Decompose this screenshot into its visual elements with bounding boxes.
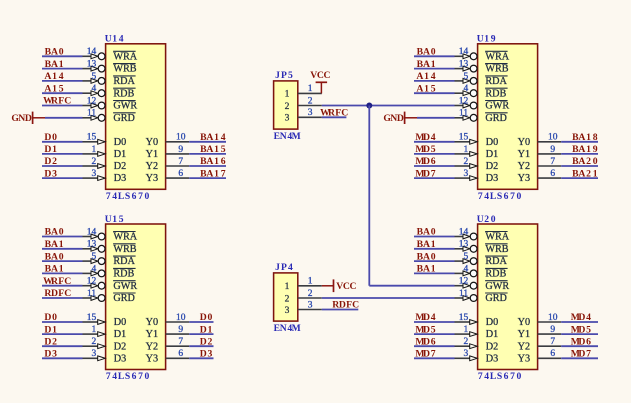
svg-text:GRD: GRD (485, 113, 507, 124)
svg-text:Y3: Y3 (518, 353, 530, 364)
wire net D3 to U15.D3 (42, 357, 83, 359)
svg-text:7: 7 (178, 337, 183, 347)
wire net D1 to U15.D1 (42, 333, 83, 335)
svg-text:JP5: JP5 (275, 70, 293, 81)
svg-text:Y0: Y0 (518, 137, 530, 148)
wire net MD5 to U19.D1 (414, 153, 455, 155)
U14 pin 5 (RDA) input stub with bubble (83, 72, 106, 85)
U19 pin 11 (GRD) input stub with bubble (455, 109, 478, 122)
wire net MD4 to U19.D0 (414, 141, 455, 143)
wire net BA20 from U19.Y2 (561, 165, 598, 167)
svg-text:D2: D2 (44, 336, 57, 347)
svg-text:15: 15 (459, 313, 469, 323)
JP5 pin 1 stub (298, 84, 322, 94)
wire net BA14 from U14.Y0 (189, 141, 226, 143)
svg-text:RDB: RDB (485, 269, 506, 280)
svg-text:BA1: BA1 (417, 264, 436, 275)
wire net BA1 to U15.RDB (42, 272, 83, 274)
U15 pin 9 (Y1) output stub (166, 325, 190, 335)
svg-text:11: 11 (87, 109, 96, 119)
wire JP4.2 to U20.GRD (322, 297, 455, 299)
net label BA17 (200, 168, 226, 179)
IC U14 body (106, 44, 166, 190)
U20 pin 12 (GWR) input stub with bubble (455, 277, 478, 290)
svg-text:GWR: GWR (485, 281, 509, 292)
wire net MD6 from U20.Y2 (561, 345, 598, 347)
svg-text:2: 2 (285, 102, 290, 112)
svg-text:1: 1 (308, 277, 313, 287)
net label BA20 (572, 156, 598, 167)
svg-text:MD7: MD7 (571, 349, 591, 360)
wire net BA17 from U14.Y3 (189, 177, 226, 179)
JP4 pin 2 stub (298, 289, 322, 299)
svg-text:2: 2 (463, 337, 468, 347)
wire net D3 from U15.Y3 (189, 357, 213, 359)
wire net A14 to U19.RDA (414, 80, 455, 82)
svg-text:BA0: BA0 (417, 251, 436, 262)
svg-text:D0: D0 (44, 132, 57, 143)
wire net MD4 to U20.D0 (414, 321, 455, 323)
U19 pin 13 (WRB) input stub with bubble (455, 60, 478, 73)
svg-text:GWR: GWR (113, 101, 137, 112)
svg-text:3: 3 (308, 108, 313, 118)
svg-text:9: 9 (550, 325, 555, 335)
svg-text:RDA: RDA (485, 76, 507, 87)
net label MD5 (571, 324, 591, 335)
svg-text:14: 14 (459, 227, 469, 237)
svg-text:Y3: Y3 (146, 173, 158, 184)
svg-text:11: 11 (459, 109, 468, 119)
net label MD6 (571, 336, 591, 347)
svg-text:6: 6 (550, 349, 555, 359)
svg-text:MD4: MD4 (415, 132, 435, 143)
U19 pin 7 (Y2) output stub (538, 157, 562, 167)
net label WRFC (43, 96, 71, 107)
svg-text:4: 4 (463, 84, 468, 94)
svg-text:A15: A15 (44, 83, 63, 94)
net label BA21 (572, 168, 598, 179)
U15 pin 1 (D1) input stub (83, 325, 106, 337)
svg-text:Y0: Y0 (518, 317, 530, 328)
U14 pin 14 (WRA) input stub with bubble (83, 47, 106, 59)
svg-text:MD4: MD4 (415, 312, 435, 323)
IC U20 body (478, 224, 538, 370)
svg-text:BA0: BA0 (417, 227, 436, 238)
svg-text:5: 5 (463, 252, 468, 262)
svg-text:RDFC: RDFC (44, 288, 71, 299)
svg-text:A15: A15 (416, 83, 435, 94)
svg-text:15: 15 (87, 133, 97, 143)
svg-text:Y2: Y2 (518, 341, 530, 352)
wire net BA1 to U14.WRB (42, 68, 83, 70)
svg-text:RDB: RDB (113, 88, 134, 99)
svg-text:D3: D3 (114, 353, 126, 364)
net label BA0 (417, 251, 436, 262)
net label BA1 (45, 59, 64, 70)
net label BA1 (417, 239, 436, 250)
svg-text:5: 5 (463, 72, 468, 82)
svg-text:12: 12 (87, 96, 97, 106)
IC U15 body (106, 224, 166, 370)
wire net D2 from U15.Y2 (189, 345, 213, 347)
svg-text:RDFC: RDFC (332, 300, 359, 311)
power port VCC at JP4 pin 1 (322, 279, 357, 292)
svg-text:RDA: RDA (113, 256, 135, 267)
svg-text:U19: U19 (477, 34, 496, 45)
svg-text:GND: GND (11, 113, 32, 124)
JP4 pin 1 stub (298, 277, 322, 287)
U15 pin 2 (D2) input stub (83, 337, 106, 349)
net label A15 (44, 83, 63, 94)
net label BA0 (45, 47, 64, 58)
wire net D3 to U14.D3 (42, 177, 83, 179)
U20 pin 10 (Y0) output stub (538, 313, 562, 323)
wire net D0 to U15.D0 (42, 321, 83, 323)
svg-text:3: 3 (91, 349, 96, 359)
designator U15 (105, 214, 124, 225)
svg-text:WRB: WRB (113, 64, 136, 75)
U14 pin 10 (Y0) output stub (166, 133, 190, 143)
svg-text:3: 3 (285, 306, 290, 316)
net label BA1 (417, 59, 436, 70)
svg-text:MD5: MD5 (571, 324, 591, 335)
svg-text:Y1: Y1 (146, 329, 158, 340)
svg-text:D1: D1 (200, 324, 213, 335)
svg-text:WRFC: WRFC (320, 108, 348, 119)
net label BA1 (45, 239, 64, 250)
svg-text:GND: GND (383, 113, 404, 124)
svg-text:13: 13 (459, 240, 469, 250)
net label D2 (44, 336, 57, 347)
JP5 pin 3 stub (298, 108, 322, 118)
svg-text:10: 10 (176, 133, 186, 143)
net label D1 (44, 324, 57, 335)
U14 pin 15 (D0) input stub (83, 133, 106, 145)
svg-text:BA1: BA1 (45, 264, 64, 275)
wire net MD5 from U20.Y1 (561, 333, 598, 335)
designator JP4 (275, 262, 293, 273)
wire net BA16 from U14.Y2 (189, 165, 226, 167)
net label D0 (200, 312, 213, 323)
U14 pin 11 (GRD) input stub with bubble (83, 109, 106, 122)
U15 pin 3 (D3) input stub (83, 349, 106, 361)
net label D2 (44, 156, 57, 167)
svg-text:3: 3 (463, 169, 468, 179)
designator U14 (105, 34, 124, 45)
svg-text:3: 3 (308, 300, 313, 310)
U14 pin 2 (D2) input stub (83, 157, 106, 169)
svg-text:12: 12 (459, 277, 469, 287)
net label MD4 (415, 312, 435, 323)
svg-text:MD6: MD6 (571, 336, 591, 347)
U19 pin 12 (GWR) input stub with bubble (455, 96, 478, 109)
svg-text:BA19: BA19 (572, 144, 598, 155)
svg-text:1: 1 (308, 84, 313, 94)
U15 pin 11 (GRD) input stub with bubble (83, 289, 106, 302)
svg-text:WRFC: WRFC (43, 276, 71, 287)
U15 pin 4 (RDB) input stub with bubble (83, 264, 106, 277)
U14 pin 4 (RDB) input stub with bubble (83, 84, 106, 97)
wire net MD7 to U19.D3 (414, 177, 455, 179)
svg-text:2: 2 (308, 289, 313, 299)
power port VCC at JP5 pin 1 (310, 70, 330, 93)
svg-text:BA1: BA1 (417, 59, 436, 70)
wire net MD6 to U20.D2 (414, 345, 455, 347)
svg-text:EN4M: EN4M (274, 323, 301, 334)
svg-text:BA21: BA21 (572, 168, 598, 179)
svg-text:10: 10 (548, 313, 558, 323)
svg-text:D0: D0 (200, 312, 213, 323)
net label BA16 (200, 156, 226, 167)
wire RDFC at JP4.3 (322, 309, 359, 311)
svg-text:GRD: GRD (113, 293, 135, 304)
IC U19 body (478, 44, 538, 190)
wire net WRFC to U14.GWR (42, 105, 83, 107)
U14 pin 3 (D3) input stub (83, 169, 106, 181)
svg-text:RDA: RDA (113, 76, 135, 87)
U19 pin 2 (D2) input stub (455, 157, 478, 169)
svg-text:Y0: Y0 (146, 137, 158, 148)
net label BA0 (45, 251, 64, 262)
svg-text:13: 13 (87, 60, 97, 70)
svg-text:BA14: BA14 (200, 132, 226, 143)
svg-text:1: 1 (285, 282, 290, 292)
value 74LS670 of U20 (478, 371, 522, 382)
svg-text:9: 9 (178, 325, 183, 335)
svg-text:MD6: MD6 (415, 156, 435, 167)
svg-text:4: 4 (91, 84, 96, 94)
svg-text:WRA: WRA (113, 51, 137, 62)
net label MD4 (415, 132, 435, 143)
svg-text:4: 4 (463, 264, 468, 274)
JP4 pin 3 stub (298, 300, 322, 310)
wire net RDFC to U15.GRD (42, 297, 83, 299)
svg-text:2: 2 (463, 157, 468, 167)
net label BA1 (417, 264, 436, 275)
svg-text:BA1: BA1 (45, 239, 64, 250)
svg-text:Y1: Y1 (518, 329, 530, 340)
net label D3 (44, 349, 57, 360)
U19 pin 9 (Y1) output stub (538, 145, 562, 155)
svg-text:MD6: MD6 (415, 336, 435, 347)
svg-text:Y2: Y2 (518, 161, 530, 172)
svg-text:WRA: WRA (113, 232, 137, 243)
U20 pin 9 (Y1) output stub (538, 325, 562, 335)
wire net D2 to U14.D2 (42, 165, 83, 167)
svg-text:D0: D0 (114, 137, 126, 148)
wire net BA1 to U19.WRB (414, 68, 455, 70)
value EN4M of JP4 (274, 323, 301, 334)
svg-text:D2: D2 (200, 336, 213, 347)
wire net MD7 to U20.D3 (414, 357, 455, 359)
svg-text:WRA: WRA (485, 232, 509, 243)
wire net MD4 from U20.Y0 (561, 321, 598, 323)
U14 pin 6 (Y3) output stub (166, 169, 190, 179)
svg-text:BA20: BA20 (572, 156, 598, 167)
wire vertical junction down to U20 GWR row (368, 106, 370, 286)
net label MD6 (415, 336, 435, 347)
svg-text:MD5: MD5 (415, 144, 435, 155)
svg-text:2: 2 (285, 294, 290, 304)
net label RDFC (44, 288, 71, 299)
U20 pin 6 (Y3) output stub (538, 349, 562, 359)
svg-text:BA0: BA0 (45, 227, 64, 238)
svg-text:D1: D1 (44, 144, 57, 155)
svg-text:D2: D2 (114, 341, 126, 352)
svg-text:D3: D3 (200, 349, 213, 360)
svg-text:U20: U20 (477, 214, 496, 225)
wire net MD5 to U20.D1 (414, 333, 455, 335)
net label WRFC (43, 276, 71, 287)
svg-text:BA0: BA0 (45, 47, 64, 58)
svg-text:14: 14 (459, 47, 469, 57)
svg-text:12: 12 (459, 96, 469, 106)
wire net BA0 to U19.WRA (414, 55, 455, 57)
svg-text:BA1: BA1 (417, 239, 436, 250)
svg-text:MD7: MD7 (415, 168, 435, 179)
svg-text:Y2: Y2 (146, 341, 158, 352)
svg-text:MD7: MD7 (415, 349, 435, 360)
wire net BA1 to U15.WRB (42, 248, 83, 250)
svg-text:Y3: Y3 (518, 173, 530, 184)
svg-text:D1: D1 (486, 329, 498, 340)
svg-text:A14: A14 (416, 71, 435, 82)
wire net BA18 from U19.Y0 (561, 141, 598, 143)
U14 pin 13 (WRB) input stub with bubble (83, 60, 106, 73)
U19 pin 5 (RDA) input stub with bubble (455, 72, 478, 85)
svg-text:WRB: WRB (113, 244, 136, 255)
power port GND at U14.GRD (11, 112, 45, 124)
wire net D1 from U15.Y1 (189, 333, 213, 335)
svg-text:RDB: RDB (485, 88, 506, 99)
U15 pin 13 (WRB) input stub with bubble (83, 240, 106, 253)
svg-text:9: 9 (550, 145, 555, 155)
svg-text:D2: D2 (44, 156, 57, 167)
svg-text:VCC: VCC (336, 281, 356, 292)
net label MD7 (415, 349, 435, 360)
wire net WRFC to U15.GWR (42, 285, 83, 287)
svg-text:3: 3 (91, 169, 96, 179)
U15 pin 6 (Y3) output stub (166, 349, 190, 359)
svg-text:D1: D1 (114, 329, 126, 340)
net label BA19 (572, 144, 598, 155)
wire net BA0 to U15.RDA (42, 260, 83, 262)
svg-text:WRA: WRA (485, 51, 509, 62)
U20 pin 2 (D2) input stub (455, 337, 478, 349)
svg-text:D3: D3 (486, 173, 498, 184)
net label MD7 (571, 349, 591, 360)
svg-text:Y2: Y2 (146, 161, 158, 172)
svg-text:2: 2 (91, 337, 96, 347)
U15 pin 12 (GWR) input stub with bubble (83, 277, 106, 290)
svg-text:BA15: BA15 (200, 144, 226, 155)
net label MD5 (415, 144, 435, 155)
svg-text:GRD: GRD (485, 293, 507, 304)
wire net BA15 from U14.Y1 (189, 153, 226, 155)
svg-text:JP4: JP4 (275, 262, 293, 273)
U20 pin 11 (GRD) input stub with bubble (455, 289, 478, 302)
wire WRFC at JP5.3 (322, 116, 347, 118)
svg-text:MD4: MD4 (571, 312, 591, 323)
svg-text:14: 14 (87, 227, 97, 237)
U14 pin 1 (D1) input stub (83, 145, 106, 157)
wire net A14 to U14.RDA (42, 80, 83, 82)
svg-text:4: 4 (91, 264, 96, 274)
svg-text:D1: D1 (44, 324, 57, 335)
wire net BA0 to U15.WRA (42, 236, 83, 238)
wire net BA1 to U20.RDB (414, 272, 455, 274)
connector JP4 body (274, 273, 298, 321)
svg-text:WRB: WRB (485, 244, 508, 255)
svg-text:GWR: GWR (485, 101, 509, 112)
net label MD6 (415, 156, 435, 167)
svg-text:BA16: BA16 (200, 156, 226, 167)
wire net D0 from U15.Y0 (189, 321, 213, 323)
svg-text:15: 15 (459, 133, 469, 143)
wire net BA0 to U14.WRA (42, 55, 83, 57)
svg-text:MD5: MD5 (415, 324, 435, 335)
svg-text:D0: D0 (44, 312, 57, 323)
svg-text:D0: D0 (486, 137, 498, 148)
svg-text:WRB: WRB (485, 64, 508, 75)
svg-text:BA17: BA17 (200, 168, 226, 179)
U14 pin 9 (Y1) output stub (166, 145, 190, 155)
value 74LS670 of U14 (106, 191, 150, 202)
value EN4M of JP5 (274, 131, 301, 142)
U19 pin 4 (RDB) input stub with bubble (455, 84, 478, 97)
net label D1 (44, 144, 57, 155)
net label BA18 (572, 132, 598, 143)
svg-text:5: 5 (91, 252, 96, 262)
wire net D1 to U14.D1 (42, 153, 83, 155)
svg-text:10: 10 (548, 133, 558, 143)
value 74LS670 of U15 (106, 371, 150, 382)
net label BA0 (417, 227, 436, 238)
U19 pin 10 (Y0) output stub (538, 133, 562, 143)
power port GND at U19.GRD (383, 112, 417, 124)
svg-text:D2: D2 (114, 161, 126, 172)
svg-text:BA0: BA0 (45, 251, 64, 262)
U19 pin 14 (WRA) input stub with bubble (455, 47, 478, 59)
U19 pin 3 (D3) input stub (455, 169, 478, 181)
svg-text:6: 6 (178, 169, 183, 179)
net label A15 (416, 83, 435, 94)
wire to U20.GWR (369, 285, 454, 287)
U19 pin 1 (D1) input stub (455, 145, 478, 157)
U15 pin 10 (Y0) output stub (166, 313, 190, 323)
U19 pin 6 (Y3) output stub (538, 169, 562, 179)
wire GND to U14.GRD (45, 117, 83, 119)
svg-text:3: 3 (463, 349, 468, 359)
U15 pin 14 (WRA) input stub with bubble (83, 227, 106, 240)
wire JP5.2 to U19.GWR (322, 105, 455, 107)
svg-text:15: 15 (87, 313, 97, 323)
svg-text:BA1: BA1 (45, 59, 64, 70)
svg-text:13: 13 (459, 60, 469, 70)
svg-text:Y1: Y1 (146, 149, 158, 160)
wire net D2 to U15.D2 (42, 345, 83, 347)
net label D0 (44, 312, 57, 323)
U15 pin 7 (Y2) output stub (166, 337, 190, 347)
svg-text:D0: D0 (114, 317, 126, 328)
svg-text:1: 1 (463, 325, 468, 335)
value 74LS670 of U19 (478, 191, 522, 202)
wire net MD6 to U19.D2 (414, 165, 455, 167)
U20 pin 3 (D3) input stub (455, 349, 478, 361)
svg-text:11: 11 (87, 289, 96, 299)
svg-text:1: 1 (91, 145, 96, 155)
svg-text:U14: U14 (105, 34, 124, 45)
